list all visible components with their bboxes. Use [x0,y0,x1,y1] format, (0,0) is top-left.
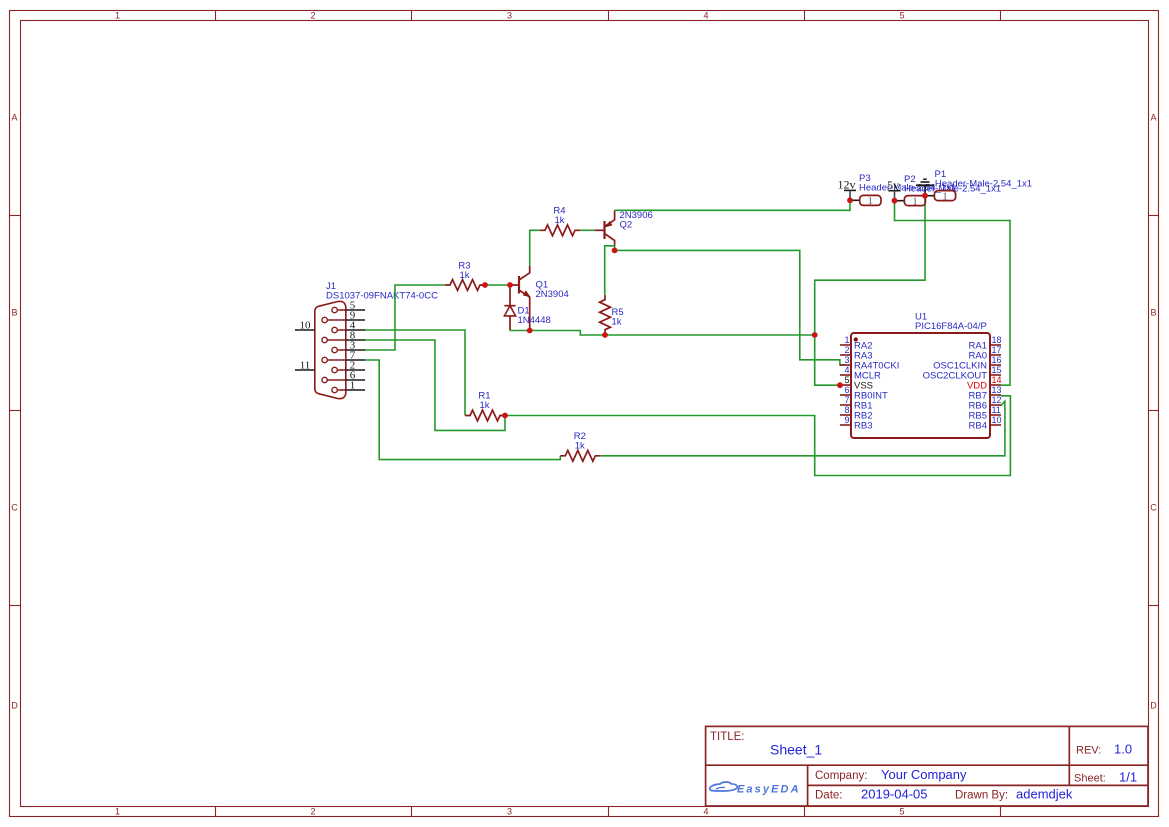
svg-text:1: 1 [868,195,874,207]
svg-text:Q2: Q2 [620,220,633,231]
J1 pin 9 [322,309,365,322]
wire P1 gnd net to U1 VSS [815,196,925,386]
svg-text:14: 14 [992,375,1002,385]
svg-text:15: 15 [992,365,1002,375]
U1 pin 3 RA4T0CKI [840,355,899,371]
transistor Q1 2N3904 [510,266,569,331]
svg-text:TITLE:: TITLE: [710,731,745,743]
resistor R5 [600,295,624,335]
U1 pin 18 RA1 [969,335,1002,351]
junction dot R3 right [482,282,488,288]
wire R4 to Q2 base [580,229,595,231]
svg-text:5v: 5v [887,178,899,192]
svg-text:1k: 1k [612,317,622,328]
wire J1 pin4 to R1 [365,330,465,416]
svg-text:6: 6 [844,385,849,395]
svg-text:PIC16F84A-04/P: PIC16F84A-04/P [915,321,987,332]
wire R2 to U1 RB6 [600,401,1005,456]
U1 pin 6 RB0INT [840,385,888,401]
U1 pin 12 RB6 [969,395,1002,411]
wire J1 pin8 to R1 right [365,340,505,430]
svg-text:17: 17 [992,345,1002,355]
svg-text:B: B [1150,308,1156,318]
svg-text:3: 3 [507,11,512,21]
wire Q2 collector to R5 [605,246,615,295]
svg-text:B: B [11,308,17,318]
IC U1 PIC16F84A-04/P [851,312,990,439]
svg-text:13: 13 [992,385,1002,395]
wire Q2 emitter to 12v [615,200,850,210]
svg-text:10: 10 [992,415,1002,425]
svg-text:Header-Male-2.54_1x1: Header-Male-2.54_1x1 [935,179,1032,190]
J1 pin 1 [332,379,365,392]
net flag 5v [887,178,901,201]
svg-text:DS1037-09FNAKT74-0CC: DS1037-09FNAKT74-0CC [326,291,438,302]
svg-text:2: 2 [310,807,315,817]
junction dot gnd bus at U1 [812,332,818,338]
U1 pin 15 OSC2CLKOUT [923,365,1002,381]
U1 pin 8 RB2 [840,405,872,421]
U1 pin 2 RA3 [840,345,872,361]
header P1 [925,169,1032,202]
resistor R2 [560,431,600,461]
svg-text:REV:: REV: [1076,744,1101,756]
J1 pin 5 [332,299,365,312]
U1 pin 10 RB4 [969,415,1002,431]
svg-text:10: 10 [300,319,312,331]
U1 pin 17 RA0 [969,345,1002,361]
junction dot Q1 base node [507,282,513,288]
wire J1 pin7 to R2 [365,360,560,460]
svg-text:A: A [11,113,17,123]
svg-text:1.0: 1.0 [1114,741,1132,756]
svg-text:5: 5 [844,375,849,385]
junction dot 5v P2 [892,198,898,204]
junction dot P1 gnd [922,193,928,199]
svg-text:D: D [1150,701,1157,711]
svg-text:Sheet_1: Sheet_1 [770,742,822,758]
U1 pin 16 OSC1CLKIN [933,355,1001,371]
header P2 [895,174,1002,207]
svg-text:12: 12 [992,395,1002,405]
resistor R1 [465,391,505,421]
J1 pin 4 [332,319,365,332]
svg-text:7: 7 [844,395,849,405]
svg-text:12v: 12v [838,178,856,192]
wire R1 to U1 RB7 [505,396,1010,476]
svg-text:4: 4 [703,11,708,21]
U1 pin 1 RA2 [840,335,872,351]
junction dot R1 right [502,413,508,419]
resistor R4 [540,206,580,236]
svg-text:1: 1 [350,379,356,391]
svg-text:1: 1 [115,11,120,21]
svg-text:EasyEDA: EasyEDA [737,784,801,796]
U1 pin 14 VDD [967,375,1002,391]
U1 pin 4 MCLR [840,365,881,381]
resistor R3 [445,261,485,291]
svg-text:D: D [11,701,18,711]
svg-text:RB3: RB3 [854,421,872,432]
svg-text:9: 9 [844,415,849,425]
svg-text:3: 3 [507,807,512,817]
wire J1 pin3 to R3 [365,285,445,350]
net flag 12v [838,178,857,201]
svg-text:1k: 1k [554,215,564,226]
svg-text:Company:: Company: [815,770,867,782]
svg-text:18: 18 [992,335,1002,345]
svg-text:1k: 1k [459,270,469,281]
svg-text:A: A [1150,113,1156,123]
svg-text:8: 8 [844,405,849,415]
transistor Q2 2N3906 [595,210,653,246]
connector J1 DS1037-09FNAKT74-0CC [315,281,438,399]
svg-text:1: 1 [942,190,948,202]
svg-text:1: 1 [912,195,918,207]
svg-text:1N4448: 1N4448 [518,315,551,326]
header P3 [850,173,956,207]
ground symbol [916,179,934,196]
svg-text:Date:: Date: [815,790,843,802]
svg-text:ademdjek: ademdjek [1016,787,1073,802]
svg-text:4: 4 [703,807,708,817]
svg-text:16: 16 [992,355,1002,365]
U1 pin 7 RB1 [840,395,872,411]
svg-text:1: 1 [844,335,849,345]
J1 pin 3 [332,339,365,352]
svg-text:RB4: RB4 [969,421,987,432]
junction dot R5 bottom [602,332,608,338]
EasyEDA logo [710,782,801,796]
svg-text:1k: 1k [479,400,489,411]
svg-text:2019-04-05: 2019-04-05 [861,787,928,802]
svg-text:11: 11 [300,359,311,371]
svg-text:Drawn By:: Drawn By: [955,790,1008,802]
U1 pin 5 VSS [840,375,873,391]
svg-text:Your Company: Your Company [881,767,967,782]
svg-text:2: 2 [844,345,849,355]
svg-text:1/1: 1/1 [1119,769,1137,784]
wire 5v P2 to U1 VDD [895,201,1011,386]
diode D1 1N4448 [504,285,550,331]
svg-text:5: 5 [899,11,904,21]
svg-text:5: 5 [899,807,904,817]
svg-text:Sheet:: Sheet: [1074,772,1106,784]
svg-text:3: 3 [844,355,849,365]
svg-text:1k: 1k [575,440,585,451]
junction dot U1 VSS pin [837,382,843,388]
J1 pin 10 [295,319,315,331]
svg-text:C: C [1150,503,1157,513]
junction dot 12v P3 [847,197,853,203]
J1 pin 2 [332,359,365,372]
wire Q2 collector to U1 RA4T0CKI [615,246,845,365]
J1 pin 7 [322,349,365,362]
junction dot Q1 emitter gnd [527,328,533,334]
wire R3 to Q1 base [485,284,510,286]
wire Q1 collector to R4 [530,230,540,265]
junction dot Q2 collector [612,248,618,254]
TITLE BLOCK [706,726,1148,806]
svg-text:2: 2 [310,11,315,21]
svg-text:2N3904: 2N3904 [536,289,569,300]
wire ground bus D1/Q1/R5 [510,331,815,336]
svg-text:11: 11 [992,405,1001,415]
U1 pin 9 RB3 [840,415,872,431]
svg-text:4: 4 [844,365,849,375]
U1 pin 11 RB5 [969,405,1001,421]
svg-text:C: C [11,503,18,513]
J1 pin 11 [295,359,315,371]
svg-text:1: 1 [115,807,120,817]
J1 pin 8 [322,329,365,342]
J1 pin 6 [322,369,365,382]
U1 pin 13 RB7 [969,385,1002,401]
